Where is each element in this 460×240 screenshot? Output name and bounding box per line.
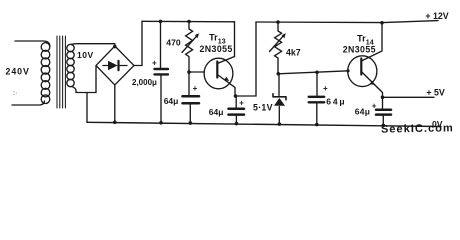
svg-text:+ 12V: + 12V [425, 11, 448, 21]
svg-text:5·1V: 5·1V [253, 102, 273, 112]
svg-text:240V: 240V [6, 67, 30, 77]
svg-text:64μ: 64μ [326, 96, 346, 106]
svg-text:+: + [239, 98, 244, 107]
svg-text:2N3055: 2N3055 [200, 44, 233, 54]
svg-text:+: + [193, 84, 198, 93]
svg-text:+ 5V: + 5V [426, 87, 444, 97]
svg-text:64μ: 64μ [164, 96, 179, 106]
svg-text:2N3055: 2N3055 [343, 44, 376, 54]
svg-text:470: 470 [166, 37, 181, 47]
svg-text:+: + [152, 58, 157, 67]
svg-text:10V: 10V [77, 50, 94, 60]
svg-text:+: + [323, 84, 328, 93]
svg-text:+: + [372, 102, 377, 111]
svg-text:64μ: 64μ [355, 107, 371, 117]
svg-text::·: :· [13, 90, 17, 97]
svg-text:64μ: 64μ [209, 107, 224, 117]
svg-text:4k7: 4k7 [286, 47, 301, 57]
svg-text:SeekIC.com: SeekIC.com [381, 122, 454, 135]
svg-text:2,000μ: 2,000μ [132, 78, 157, 87]
